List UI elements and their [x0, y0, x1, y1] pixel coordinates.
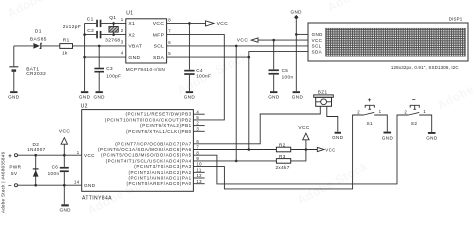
ground under S1 [382, 132, 394, 141]
node SCL bus drop [235, 45, 238, 48]
svg-text:1: 1 [423, 109, 426, 114]
node C4 junction [188, 22, 191, 25]
svg-text:5V: 5V [11, 171, 18, 176]
svg-text:12: 12 [196, 173, 202, 178]
svg-text:X2: X2 [128, 32, 135, 38]
wire display GND pin row [296, 33, 308, 35]
power VCC arrow up at pullups [298, 125, 309, 149]
svg-text:VCC: VCC [217, 21, 229, 27]
wire S1 right to ground [374, 115, 387, 132]
svg-text:C2: C2 [87, 28, 94, 34]
svg-text:100n: 100n [48, 171, 60, 176]
svg-text:Adobe Stock | #468035846: Adobe Stock | #468035846 [1, 151, 6, 213]
svg-text:U2: U2 [81, 103, 88, 109]
node VCC rail junction [63, 154, 66, 157]
wire D1 to R1 [41, 45, 60, 47]
svg-text:U1: U1 [126, 11, 133, 17]
svg-text:GND: GND [290, 10, 302, 15]
svg-text:2: 2 [404, 109, 407, 114]
svg-text:GND: GND [292, 95, 304, 100]
ground under C4 [184, 91, 196, 100]
op-amp U1 MCP79410 RTC [126, 11, 167, 73]
wire PB0 stub [193, 130, 204, 132]
svg-text:5: 5 [168, 51, 171, 56]
node crystal to X2 row [112, 33, 115, 36]
svg-text:(PCINT4/T1/SCL/USCK/ADC4)PA4: (PCINT4/T1/SCL/USCK/ADC4)PA4 [106, 158, 192, 163]
svg-text:2x12pF: 2x12pF [63, 24, 81, 30]
node display GND junction [295, 33, 298, 36]
svg-text:+: + [8, 154, 12, 160]
wire C1/C2 ground vertical [84, 23, 86, 91]
wire PA6 row to R2 [193, 149, 317, 151]
svg-text:(PCINT6/OC1A/SDA/MOSI/ADC6)PA6: (PCINT6/OC1A/SDA/MOSI/ADC6)PA6 [98, 147, 192, 152]
svg-text:(PCINT7/ICP/OC0B/ADC7)PA7: (PCINT7/ICP/OC0B/ADC7)PA7 [115, 141, 191, 146]
power VCC arrow up at U2 [59, 128, 70, 144]
capacitor C6 [48, 144, 69, 204]
svg-text:GND: GND [79, 95, 91, 100]
battery BAT1 [9, 46, 46, 91]
svg-text:DISP1: DISP1 [449, 16, 463, 21]
svg-text:10: 10 [196, 162, 202, 167]
svg-text:1: 1 [121, 17, 124, 22]
svg-text:100n: 100n [282, 75, 294, 80]
svg-text:R2: R2 [279, 143, 286, 148]
wire PA2 stub [193, 171, 204, 173]
capacitor C3 [94, 46, 121, 91]
svg-text:VCC: VCC [325, 147, 335, 152]
svg-text:+: + [368, 97, 372, 104]
svg-text:8: 8 [196, 150, 199, 155]
svg-text:C5: C5 [282, 68, 289, 73]
svg-text:VCC: VCC [298, 125, 309, 131]
svg-text:−: − [8, 184, 12, 190]
capacitor C2 [85, 28, 126, 39]
wire U1 VCC pin 8 [167, 22, 206, 24]
svg-text:4: 4 [196, 109, 199, 114]
node SDA bus to PA6 row [248, 148, 251, 151]
node SDA bus at U1 row [248, 56, 251, 59]
svg-text:100pF: 100pF [106, 73, 121, 78]
svg-text:2: 2 [357, 109, 360, 114]
transistor Q? no - buzzer BZ1 [314, 90, 334, 107]
svg-text:(PCINT5/OC1B/MISO/DO/ADC5)PA5: (PCINT5/OC1B/MISO/DO/ADC5)PA5 [101, 153, 192, 158]
node R2 right VCC junction [305, 148, 308, 151]
wire PB1 stub [193, 125, 204, 127]
diode D2 [27, 142, 46, 185]
svg-text:5: 5 [196, 115, 199, 120]
svg-text:GND: GND [93, 95, 105, 100]
wire SDA display row and bus vertical [249, 52, 308, 150]
svg-text:2x4k7: 2x4k7 [275, 165, 289, 170]
svg-text:SCL: SCL [154, 44, 165, 50]
svg-text:128x32px, 0.91", SSD1306, I2C: 128x32px, 0.91", SSD1306, I2C [391, 65, 459, 70]
svg-text:CR2032: CR2032 [26, 71, 46, 77]
svg-text:(PCINT9/XTAL2)PB1: (PCINT9/XTAL2)PB1 [140, 123, 192, 128]
svg-text:GND: GND [84, 183, 96, 188]
node U1 GND to ground vertical [83, 56, 86, 59]
svg-text:14: 14 [74, 179, 80, 184]
svg-text:1k: 1k [62, 50, 68, 56]
ground under display GND vertical [292, 91, 304, 100]
wire display GND vertical [295, 20, 297, 92]
svg-text:SDA: SDA [153, 55, 165, 61]
wire PA0 stub [193, 183, 204, 185]
wire U1 SDA pin row [167, 56, 249, 58]
ground flag GND above display [290, 10, 302, 20]
wire S2 to PA5 [193, 115, 408, 184]
wire SCL row U1 to display [167, 45, 308, 47]
svg-text:4: 4 [121, 51, 124, 56]
svg-text:MFP: MFP [153, 32, 165, 38]
svg-text:D1: D1 [35, 28, 42, 34]
wire PA7 to buzzer left leg [193, 106, 320, 144]
svg-text:SCL: SCL [312, 44, 322, 49]
svg-text:GND: GND [268, 95, 280, 100]
node C5 junction [272, 39, 275, 42]
resistor R1 [60, 38, 73, 57]
svg-text:13: 13 [196, 179, 202, 184]
svg-text:3: 3 [121, 39, 124, 44]
resistor R2 [276, 143, 290, 152]
svg-text:GND: GND [312, 32, 324, 37]
capacitor C1 [85, 17, 126, 28]
diode D1 [30, 28, 47, 49]
wire PB3 stub [193, 113, 204, 115]
svg-text:11: 11 [196, 167, 201, 172]
wire S2 right to ground [419, 115, 432, 132]
svg-text:C6: C6 [52, 165, 59, 170]
power VCC arrow left for display [237, 38, 258, 44]
svg-text:1: 1 [379, 109, 382, 114]
capacitor C5 [269, 40, 294, 91]
connector PWR 5V plus terminal [8, 154, 17, 161]
svg-text:MCP79410-I/SN: MCP79410-I/SN [126, 67, 165, 72]
microcontroller U2 ATTINY84A [81, 103, 194, 201]
ground under S2 [426, 132, 438, 141]
svg-text:(PCINT10/INT0/OC0A/CKOUT)PB2: (PCINT10/INT0/OC0A/CKOUT)PB2 [105, 117, 192, 122]
power VCC arrow right of U1 [206, 21, 229, 27]
ground under buzzer [332, 132, 344, 140]
switch S2 [404, 96, 426, 126]
svg-text:VCC: VCC [153, 21, 165, 27]
svg-text:(PCINT8/XTAL1/CLKI)PB0: (PCINT8/XTAL1/CLKI)PB0 [126, 129, 192, 134]
svg-text:GND: GND [128, 55, 140, 61]
svg-text:32768: 32768 [105, 37, 120, 43]
svg-text:3: 3 [196, 126, 199, 131]
wire minus rail to U2 pin 14 [18, 184, 82, 186]
svg-text:X1: X1 [128, 21, 135, 27]
svg-text:VCC: VCC [84, 153, 95, 158]
svg-text:(PCINT11/RESET/DW)PB3: (PCINT11/RESET/DW)PB3 [125, 112, 191, 117]
power VCC arrow right at pullups [317, 147, 335, 152]
svg-text:6: 6 [196, 139, 199, 144]
svg-text:1N4007: 1N4007 [27, 147, 46, 152]
display DISP1 SSD1306 OLED [308, 16, 468, 70]
svg-text:BAS85: BAS85 [30, 36, 47, 42]
svg-text:SDA: SDA [312, 49, 322, 54]
svg-text:2: 2 [121, 28, 124, 33]
node ground rail junction [63, 184, 66, 187]
svg-text:VCC: VCC [237, 38, 249, 44]
node D2 top [34, 154, 37, 157]
svg-text:BZ1: BZ1 [318, 90, 328, 95]
svg-text:VBAT: VBAT [128, 44, 142, 50]
svg-text:7: 7 [196, 145, 199, 150]
svg-text:Q1: Q1 [109, 15, 116, 21]
wire MFP to PB2 [167, 35, 225, 120]
wire battery to D1 [14, 45, 33, 47]
switch S1 [357, 97, 381, 126]
ground below C6 [59, 204, 71, 212]
svg-text:6: 6 [168, 40, 171, 45]
node C2 to ground vertical [83, 33, 86, 36]
svg-text:1: 1 [77, 150, 80, 155]
svg-text:(PCINT3/T0/ADC3)PA3: (PCINT3/T0/ADC3)PA3 [134, 164, 191, 169]
svg-text:GND: GND [382, 135, 394, 140]
wire plus rail to U2 pin 1 [18, 154, 82, 156]
svg-text:C3: C3 [106, 66, 113, 71]
wire U1 GND pin row [85, 56, 126, 58]
ground under C1/C2 [79, 91, 91, 100]
ground under BAT1 [8, 91, 20, 100]
svg-text:PWR: PWR [9, 164, 21, 169]
wire S1 to PA3 [193, 115, 363, 189]
svg-text:VCC: VCC [59, 128, 70, 134]
svg-text:GND: GND [332, 135, 344, 140]
resistor R3 [275, 154, 290, 170]
wire SCL bus vertical [235, 46, 237, 161]
label PWR 5V [9, 164, 21, 176]
connector PWR 5V minus terminal [8, 184, 17, 190]
ground under C5 [268, 91, 280, 100]
svg-text:C1: C1 [87, 17, 94, 23]
node D2 bottom [34, 184, 37, 187]
crystal Q1 [105, 15, 120, 43]
svg-text:R3: R3 [279, 154, 286, 159]
svg-text:VCC: VCC [312, 38, 323, 43]
svg-text:GND: GND [8, 95, 20, 100]
node crystal to X1 row [112, 22, 115, 25]
svg-text:2: 2 [196, 121, 199, 126]
node VBAT/C3 junction [98, 45, 101, 48]
wire buzzer right leg to ground [327, 106, 338, 132]
svg-text:−: − [412, 96, 416, 103]
svg-text:(PCINT2/AIN1/ADC2)PA2: (PCINT2/AIN1/ADC2)PA2 [128, 170, 191, 175]
svg-text:GND: GND [426, 136, 438, 141]
node SCL bus to PA4 row [235, 160, 238, 163]
svg-text:8: 8 [168, 17, 171, 22]
wire display VCC row [258, 39, 308, 41]
wire PA1 stub [193, 177, 204, 179]
wire R1 to VBAT pin of U1 [73, 45, 126, 47]
ground under C3 [93, 91, 105, 100]
capacitor C4 [184, 23, 211, 91]
svg-text:R1: R1 [63, 38, 70, 44]
wire PA4 row to R3 [193, 150, 306, 161]
svg-text:S1: S1 [367, 121, 374, 126]
svg-text:7: 7 [168, 29, 171, 34]
svg-text:GND: GND [59, 208, 71, 213]
svg-text:9: 9 [196, 156, 199, 161]
svg-text:S2: S2 [411, 121, 418, 126]
